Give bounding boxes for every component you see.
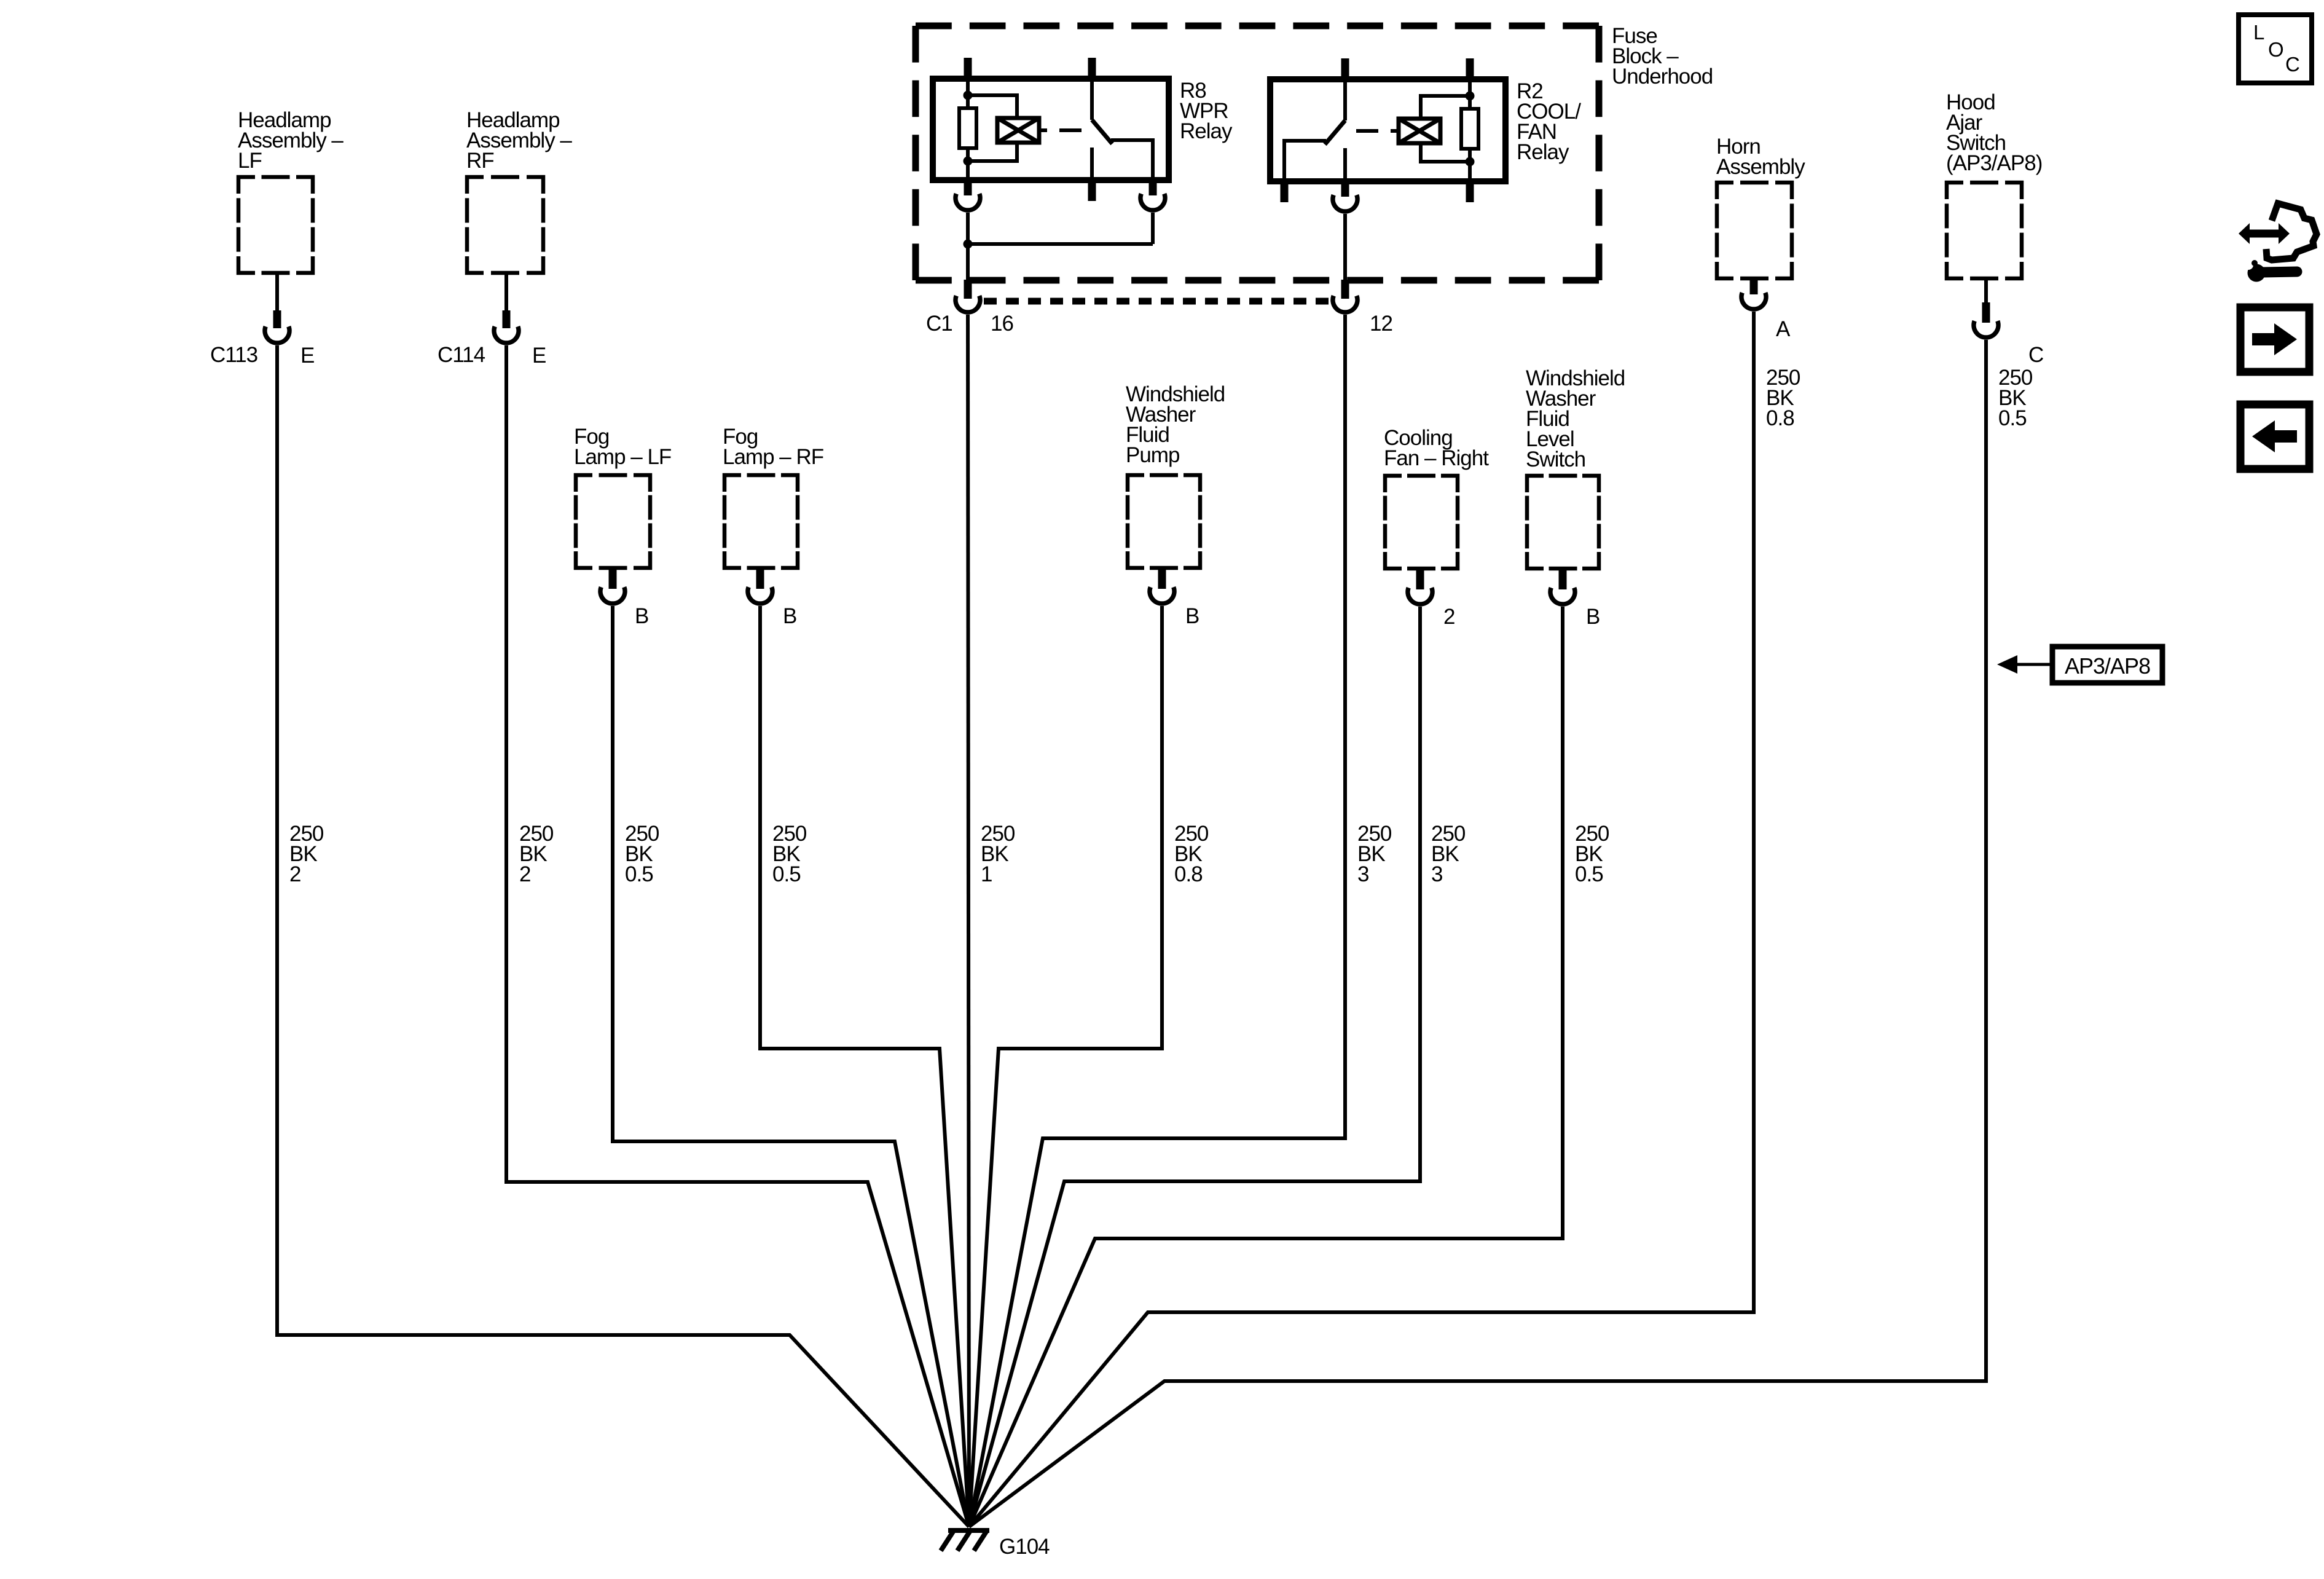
svg-text:RF: RF: [466, 149, 494, 173]
svg-text:3: 3: [1357, 862, 1368, 886]
svg-text:O: O: [2268, 38, 2283, 61]
headlamp LF fat pin: [273, 310, 281, 328]
horn fat pin: [1750, 279, 1758, 294]
svg-text:B: B: [1185, 604, 1199, 628]
R8 switch output wire: [1111, 140, 1153, 180]
back arrow icon: [2240, 404, 2309, 469]
svg-text:E: E: [532, 344, 546, 368]
R2 junction dot top: [1466, 92, 1475, 101]
R8 switch contact: [1090, 148, 1094, 180]
svg-text:G104: G104: [999, 1535, 1050, 1559]
LOC icon box: [2239, 15, 2312, 83]
forward arrow icon: [2240, 307, 2309, 372]
relay R8 WPR box: [933, 79, 1169, 180]
svg-text:B: B: [783, 604, 796, 628]
fog lamp LF fat pin: [609, 569, 617, 589]
R2 link dash: [1356, 129, 1378, 133]
svg-text:3: 3: [1431, 862, 1442, 886]
headlamp assembly RF box: [467, 177, 543, 273]
R2 coil: [1399, 119, 1440, 143]
horn connector cup: [1741, 293, 1766, 309]
connector C1 dotted face line: [984, 298, 1330, 305]
wire headlamp LF to G104: [277, 345, 969, 1527]
R2 switch riser: [1343, 79, 1347, 120]
svg-text:A: A: [1776, 317, 1791, 341]
svg-text:2: 2: [1443, 605, 1454, 629]
R2 bottom stub right: [1466, 181, 1474, 202]
R2 ground wire inside fuse block: [1343, 214, 1347, 282]
svg-text:Lamp – RF: Lamp – RF: [723, 445, 823, 469]
svg-text:2: 2: [289, 862, 300, 886]
level switch connector cup: [1550, 588, 1575, 604]
fog lamp RF connector cup: [748, 587, 772, 604]
headlamp assembly LF box: [238, 177, 313, 273]
R2 switch output wire: [1284, 141, 1326, 181]
hood ajar switch box: [1947, 183, 2022, 278]
R2 bottom stub left: [1281, 181, 1289, 202]
wire fog lamp LF to G104: [613, 606, 969, 1527]
fog lamp LF connector cup: [600, 587, 625, 604]
R2 coil-to-switch link: [1391, 129, 1399, 133]
R2 coil branch bottom wire: [1421, 143, 1470, 162]
svg-text:B: B: [635, 604, 648, 628]
junction dot R8 ground bus: [964, 240, 973, 249]
headlamp RF fat pin: [503, 310, 511, 328]
fuse block - underhood dashed boundary: [916, 26, 1599, 280]
washer fluid level switch box: [1527, 476, 1599, 569]
service/wrench navigation icon: [2239, 203, 2317, 282]
svg-text:0.5: 0.5: [625, 862, 653, 886]
R2 coil branch top wire: [1421, 96, 1470, 119]
svg-text:0.8: 0.8: [1174, 862, 1203, 886]
R2 junction dot bottom: [1466, 157, 1475, 167]
svg-text:C: C: [2285, 53, 2299, 76]
svg-text:2: 2: [519, 862, 530, 886]
svg-text:E: E: [300, 344, 314, 368]
hood ajar pin wire: [1984, 278, 1988, 304]
svg-text:C113: C113: [210, 343, 257, 367]
svg-text:AP3/AP8: AP3/AP8: [2065, 653, 2150, 679]
R2 top stub left: [1341, 58, 1349, 79]
R8 coil branch bottom wire: [968, 143, 1017, 161]
R8 junction dot bottom: [964, 157, 973, 166]
svg-text:LF: LF: [238, 149, 262, 173]
headlamp RF pin wire: [504, 273, 508, 312]
washer pump connector cup: [1150, 587, 1174, 604]
svg-text:1: 1: [981, 862, 992, 886]
wire horn to G104: [969, 312, 1754, 1527]
wire fog lamp RF to G104: [760, 606, 969, 1527]
R8 pin 85 bottom stub middle: [1088, 180, 1096, 201]
C1 pin 16 connector cup: [956, 296, 980, 312]
AP3/AP8 pointer arrow: [1997, 655, 2052, 674]
R8 switch blade: [1092, 120, 1112, 144]
AP3/AP8 off-page reference box: [2052, 647, 2162, 683]
svg-text:C1: C1: [926, 312, 952, 336]
R8 coil-to-switch link: [1039, 128, 1047, 132]
washer pump fat pin: [1158, 569, 1166, 589]
R8 coil feed wire: [966, 79, 970, 180]
fog lamp RF box: [724, 475, 798, 568]
R8 pin 87 connector cup: [1140, 194, 1165, 210]
fog lamp LF box: [576, 475, 650, 568]
R8 pin 30 top stub: [1088, 58, 1096, 79]
svg-text:Fan – Right: Fan – Right: [1384, 446, 1489, 470]
svg-text:0.8: 0.8: [1766, 406, 1794, 430]
R8 pin 86 bottom stub left: [964, 180, 972, 195]
R2 bottom stub middle: [1341, 181, 1349, 197]
svg-text:(AP3/AP8): (AP3/AP8): [1946, 151, 2042, 175]
C1 pin 12 fat pin: [1341, 280, 1349, 299]
svg-text:12: 12: [1370, 312, 1392, 336]
R8 junction dot top: [964, 91, 973, 100]
wire from pin87 to ground bus: [968, 242, 1153, 246]
wire fuse block C1-16 to G104: [968, 315, 969, 1527]
wire hood ajar to G104: [969, 340, 1986, 1527]
relay R2 COOL/FAN box: [1270, 79, 1505, 181]
R8 pin 86 connector cup: [956, 194, 980, 210]
level switch fat pin: [1559, 569, 1567, 589]
R8 ground bus wire inside fuse block: [966, 213, 970, 282]
cooling fan fat pin: [1416, 569, 1424, 589]
svg-text:Pump: Pump: [1126, 443, 1179, 467]
svg-text:B: B: [1586, 605, 1600, 629]
svg-text:Relay: Relay: [1180, 119, 1233, 143]
R2 top stub right: [1466, 58, 1474, 79]
wire level switch to G104: [969, 607, 1563, 1527]
wire fuse block C1-12 to G104: [969, 315, 1345, 1527]
R8 link dash: [1059, 128, 1082, 132]
hood ajar fat pin: [1982, 302, 1990, 323]
hood ajar connector cup: [1974, 321, 1998, 337]
svg-text:16: 16: [991, 312, 1013, 336]
svg-text:C114: C114: [438, 343, 485, 367]
cooling fan connector cup: [1408, 588, 1432, 604]
wire cooling fan to G104: [969, 607, 1420, 1527]
R8 coil: [997, 118, 1039, 143]
svg-text:0.5: 0.5: [772, 862, 801, 886]
R8 pin 87 wire to junction: [1151, 213, 1155, 244]
svg-text:Underhood: Underhood: [1612, 65, 1713, 89]
fog lamp RF fat pin: [756, 569, 764, 589]
svg-text:Relay: Relay: [1517, 140, 1569, 164]
connector C114 cup: [494, 326, 519, 343]
R2 coil feed wire: [1468, 79, 1472, 181]
svg-text:Switch: Switch: [1526, 447, 1585, 471]
R8 resistor: [959, 108, 976, 148]
horn assembly box: [1717, 183, 1792, 278]
headlamp LF pin wire: [275, 273, 279, 312]
C1 pin 12 connector cup: [1333, 296, 1357, 312]
svg-text:C: C: [2028, 343, 2043, 367]
windshield washer fluid pump box: [1128, 475, 1200, 568]
svg-text:Assembly: Assembly: [1716, 155, 1805, 179]
svg-text:L: L: [2253, 21, 2264, 44]
R2 switch blade: [1325, 120, 1345, 144]
R8 pin 87 bottom stub right: [1149, 180, 1157, 195]
R8 switch riser: [1090, 79, 1094, 120]
ground G104 symbol: [941, 1528, 989, 1551]
R2 middle pin connector cup: [1333, 195, 1357, 211]
wire washer pump to G104: [969, 606, 1162, 1527]
svg-text:0.5: 0.5: [1998, 406, 2027, 430]
cooling fan right box: [1385, 476, 1458, 569]
R8 coil branch top wire: [968, 95, 1017, 118]
svg-text:Lamp – LF: Lamp – LF: [574, 445, 671, 469]
R2 switch contact: [1343, 148, 1347, 181]
C1 pin 16 fat pin: [964, 280, 972, 299]
svg-text:0.5: 0.5: [1575, 862, 1603, 886]
connector C113 cup: [265, 326, 289, 343]
wire headlamp RF to G104: [506, 345, 969, 1527]
R8 pin 86 top stub left: [964, 58, 972, 79]
R2 resistor: [1461, 109, 1478, 149]
